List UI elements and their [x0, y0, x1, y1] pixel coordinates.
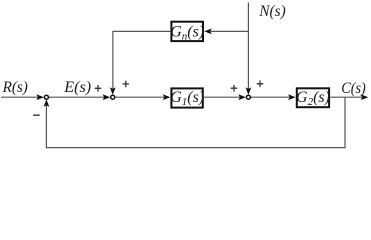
svg-text:E(s): E(s) [63, 79, 91, 96]
svg-text:Gn(s): Gn(s) [170, 24, 204, 43]
svg-text:R(s): R(s) [2, 79, 28, 96]
svg-text:C(s): C(s) [341, 80, 366, 97]
svg-text:G2(s): G2(s) [296, 89, 330, 108]
svg-text:G1(s): G1(s) [170, 89, 204, 108]
svg-text:N(s): N(s) [258, 3, 285, 20]
